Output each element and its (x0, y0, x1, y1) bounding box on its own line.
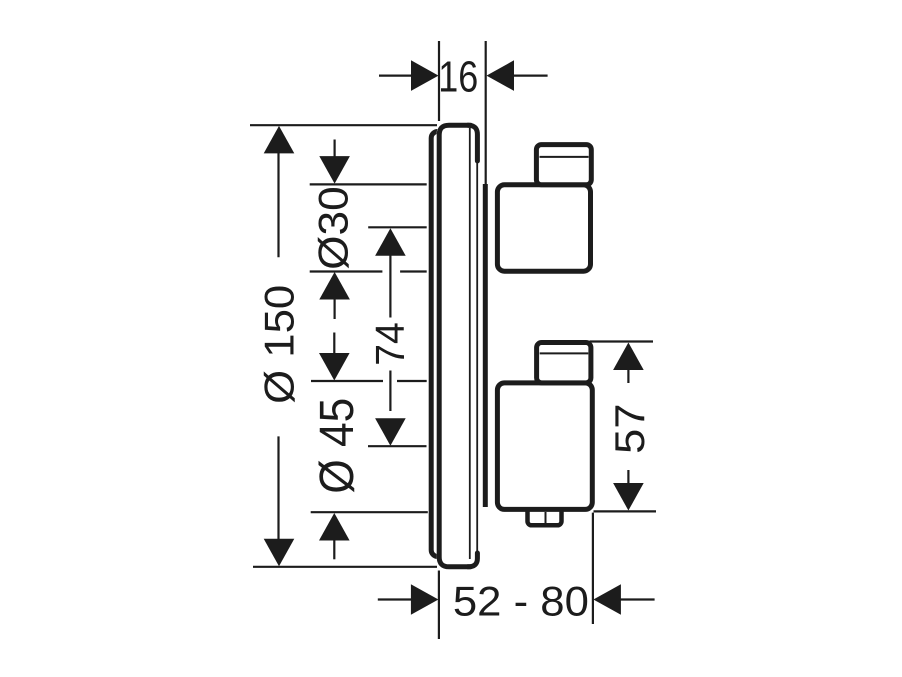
arrow 57 top (613, 343, 644, 371)
arrow O150 bottom (264, 539, 295, 567)
svg-text:Ø 150: Ø 150 (256, 285, 303, 404)
dimension 16 (379, 74, 548, 76)
svg-text:57: 57 (606, 404, 653, 455)
top cap inner line (540, 156, 589, 158)
dimension O150 (250, 125, 437, 567)
bottom cap (handle) (537, 343, 591, 383)
svg-text:Ø30: Ø30 (311, 186, 357, 270)
top sleeve (valve body O30) (497, 185, 590, 271)
svg-text:74: 74 (367, 322, 413, 366)
bottom tab (528, 506, 562, 525)
arrow 57 bottom (613, 483, 644, 511)
arrow 74 top (375, 228, 406, 256)
bottom sleeve (valve body O45) (497, 383, 592, 510)
svg-text:16: 16 (438, 53, 478, 102)
left extension line of 16 (438, 41, 440, 121)
wall line / right extension of 16 (484, 41, 487, 507)
arrow 52-80 left (411, 584, 439, 615)
back strip (concealed flange behind plate) (431, 132, 451, 557)
arrow 16 left (411, 60, 439, 91)
plate inner line (469, 128, 471, 559)
dimension O45 (311, 333, 428, 560)
dimension 57 (590, 342, 657, 512)
bottom tab divider (545, 512, 547, 524)
svg-text:Ø 45: Ø 45 (310, 398, 364, 494)
escutcheon plate (side view) (437, 123, 480, 570)
dimension 52 - 80 (378, 513, 655, 639)
dimension 74 (368, 227, 427, 446)
top cap (handle) (536, 145, 591, 185)
arrow O30 top (319, 156, 350, 184)
arrow O30 bottom (319, 272, 350, 300)
dimension O30 (310, 140, 427, 320)
bottom cap inner line (540, 352, 589, 354)
arrow O45 top (319, 353, 350, 381)
svg-text:52 - 80: 52 - 80 (453, 577, 589, 624)
arrow 74 bottom (375, 418, 406, 446)
arrow 52-80 right (593, 584, 621, 615)
arrow 16 right (487, 60, 515, 91)
arrow O150 top (264, 126, 295, 153)
arrow O45 bottom (319, 513, 350, 541)
